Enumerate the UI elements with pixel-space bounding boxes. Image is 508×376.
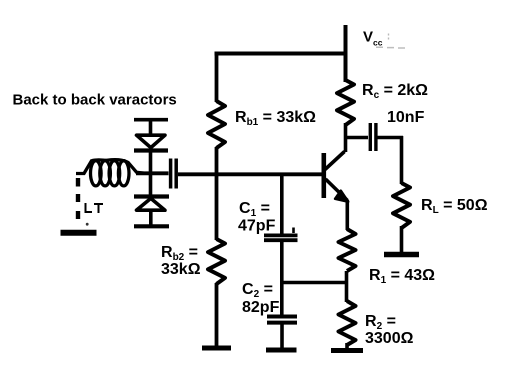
label C2 = 82pF [242,281,280,316]
label RL = 50Ohm [421,197,488,216]
wire C1 to C2 [280,242,284,317]
wire Rb2 to ground [215,283,219,346]
ground RL [384,252,419,258]
capacitor C1 [264,228,298,241]
varactor D2 [134,197,169,211]
wire R2 to ground [345,343,349,348]
wire R1 to R2 [345,271,349,302]
wire base horizontal [136,173,322,174]
wire top rail [215,52,348,56]
wire RL to ground [400,226,404,252]
inductor LT coil [76,160,145,186]
svg-text:Back to back varactors: Back to back varactors [13,92,177,109]
wire cap to RL [377,136,403,184]
wire LT dashed lead [76,178,80,219]
transistor Q1 [324,152,349,231]
label R2 = 3300Ohm [365,313,414,347]
varactor stack bottom terminal bar [134,224,169,228]
wire collector to cap [346,136,369,140]
ground R2 [331,348,363,353]
wire varactor top stub [149,121,153,135]
node dot [86,223,89,226]
capacitor coupling [171,159,177,189]
resistor Rb1 [208,101,225,148]
label 10nF [387,109,425,126]
label LT [85,203,104,213]
wire C1 branch vertical [280,175,284,234]
wire varactor bottom stub [149,211,153,225]
wire C2 to ground [280,325,284,349]
svg-text:82pF: 82pF [242,299,280,316]
label Vcc [363,29,405,48]
resistor Rb2 [208,239,225,284]
svg-text:Vcc: Vcc [363,29,383,48]
node Vcc supply line [344,25,348,82]
resistor Rc [337,80,354,125]
svg-text:RL = 50Ω: RL = 50Ω [421,197,488,216]
label Back to back varactors [13,92,177,109]
resistor R2 [339,301,356,345]
svg-text:R1 = 43Ω: R1 = 43Ω [369,267,435,286]
svg-text:C1 =: C1 = [239,200,270,219]
wire Rb1 to Rb2 [215,147,219,240]
ground C2 [266,348,297,353]
wire varactor middle [149,151,153,195]
capacitor 10nF [370,123,376,151]
varactor stack top terminal bar [134,118,168,122]
label Rc = 2kOhm [362,82,428,101]
varactor D1 [134,135,168,150]
svg-text:33kΩ: 33kΩ [161,261,201,278]
resistor RL [393,183,410,228]
svg-text:C2 =: C2 = [242,281,273,300]
svg-text:Rc = 2kΩ: Rc = 2kΩ [362,82,428,101]
svg-text:3300Ω: 3300Ω [365,330,414,347]
capacitor C2 [267,317,297,323]
ground Rb2 [202,346,231,351]
label R1 = 43Ohm [369,267,435,286]
label C1 = 47pF [238,200,276,235]
label Rb2 = 33kOhm [161,244,201,278]
label Rb1 = 33kOhm [235,109,316,128]
wire Rb vertical top [215,52,219,103]
ground LT [61,230,97,236]
svg-text:Rb1 = 33kΩ: Rb1 = 33kΩ [235,109,316,128]
wire junction C2 to emitter chain [282,281,347,285]
svg-text:47pF: 47pF [238,218,276,235]
svg-text:10nF: 10nF [387,109,425,126]
wire collector vertical [344,123,348,152]
resistor R1 [339,229,356,271]
